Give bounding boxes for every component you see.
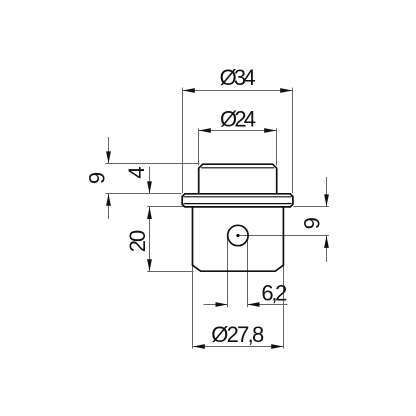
- svg-text:9: 9: [300, 217, 325, 229]
- svg-text:20: 20: [125, 230, 150, 253]
- svg-text:Ø34: Ø34: [220, 65, 256, 90]
- svg-text:9: 9: [85, 172, 110, 184]
- svg-text:4: 4: [124, 166, 149, 178]
- svg-text:6,2: 6,2: [261, 281, 287, 306]
- svg-text:Ø27,8: Ø27,8: [211, 322, 264, 347]
- svg-text:Ø24: Ø24: [220, 107, 256, 132]
